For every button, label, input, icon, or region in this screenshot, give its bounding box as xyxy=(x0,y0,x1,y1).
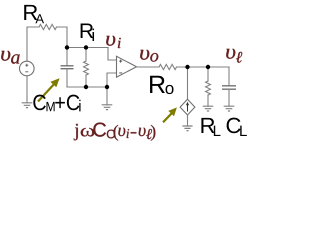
junction dots xyxy=(65,45,210,89)
wire Ri to bottom rail xyxy=(85,75,87,87)
label vi xyxy=(106,36,121,48)
wire to CL xyxy=(228,67,230,86)
label RA xyxy=(24,5,44,23)
wire capacitor to bottom rail xyxy=(66,69,68,87)
node rail vi xyxy=(67,47,108,49)
label Ri xyxy=(81,24,94,41)
label RL xyxy=(201,118,220,136)
ground below RL xyxy=(203,106,214,111)
wire to RL xyxy=(207,67,209,81)
wire op-amp output xyxy=(137,66,160,68)
wire to ground at op-amp xyxy=(106,87,108,105)
label CM+Ci xyxy=(33,95,80,112)
dependent current source diamond xyxy=(180,99,195,115)
voltage source va xyxy=(20,61,35,76)
label formula jwCC(vi-vl) xyxy=(74,123,156,141)
label vo xyxy=(140,50,158,62)
ground below CL xyxy=(224,106,235,111)
resistor RA xyxy=(39,24,56,29)
capacitor CM+Ci xyxy=(61,66,74,69)
ground at op-amp xyxy=(102,105,113,110)
wire source to ground xyxy=(26,76,28,103)
wire CL to ground xyxy=(228,89,230,106)
label va xyxy=(1,51,19,64)
ground below dependent source xyxy=(182,126,192,131)
resistor Ro xyxy=(159,64,177,69)
capacitor CL xyxy=(222,86,236,89)
resistor Ri xyxy=(84,61,89,75)
op-amp U1 xyxy=(117,56,137,77)
bottom rail xyxy=(67,86,107,88)
label Ro xyxy=(150,76,173,94)
annotation arrow to CM+Ci xyxy=(38,78,60,101)
resistor RL xyxy=(206,81,211,95)
wire node to capacitor xyxy=(66,48,68,66)
wire dependent source to ground xyxy=(187,115,189,126)
wire node to Ri xyxy=(85,48,87,62)
output rail vl xyxy=(177,66,230,68)
wire RA to node xyxy=(57,27,68,48)
wire to op-amp minus input xyxy=(107,73,117,87)
wire to dependent source xyxy=(187,67,189,99)
annotation arrow to dependent source xyxy=(163,107,177,122)
label vl xyxy=(226,49,242,63)
label CL xyxy=(227,118,247,136)
wire to op-amp plus input xyxy=(108,48,117,61)
wire RL to ground xyxy=(207,95,209,106)
wire source to RA xyxy=(27,27,39,61)
ground below source xyxy=(22,103,33,108)
